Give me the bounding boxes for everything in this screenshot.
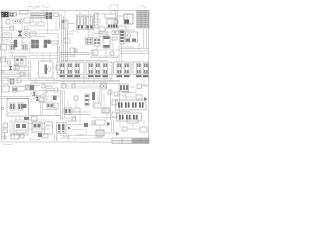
dark box B19: [53, 96, 57, 101]
wire: [0, 96, 30, 98]
wire: [45, 14, 54, 16]
control box B6: [15, 57, 27, 66]
dark box: [24, 117, 29, 120]
dark box B30: [38, 133, 42, 137]
box B48: [32, 117, 38, 122]
connector ladder C105: [95, 13, 99, 28]
box B16: [137, 84, 142, 89]
box B35: [140, 127, 147, 132]
fuse strip F1: [31, 13, 45, 18]
wire: [117, 15, 124, 17]
pump motor P1: [100, 83, 107, 89]
box B50: [72, 117, 76, 121]
connector C116: [86, 38, 93, 45]
box B29: [32, 122, 42, 132]
wire: [95, 13, 105, 15]
box B52: [39, 98, 44, 102]
pin strip: [85, 94, 89, 106]
box B53: [25, 26, 29, 30]
arrow: [68, 127, 71, 130]
wire: [59, 15, 61, 30]
wire: [138, 44, 140, 50]
box B26: [94, 103, 101, 108]
box B45: [114, 20, 118, 24]
wire: [8, 13, 31, 15]
gauge G1: [13, 19, 18, 24]
connector B2: [96, 64, 101, 74]
wire bus horizontal: [60, 52, 90, 54]
arrow: [144, 97, 148, 101]
ignition module U2: [103, 36, 110, 48]
relay R3: [3, 129, 8, 133]
wire: [96, 46, 98, 50]
relay block RB1: [124, 14, 133, 24]
label box: [51, 41, 58, 44]
box B8: [74, 49, 77, 52]
connector D2: [144, 64, 149, 74]
connector C118: [22, 45, 28, 50]
connector B1: [89, 64, 94, 74]
connector assembly B: [86, 62, 112, 75]
wire: [28, 123, 45, 125]
connector assembly A: [57, 62, 84, 75]
margin note: [3, 144, 12, 146]
connector block CB6: [119, 84, 129, 92]
resistor stack: [14, 40, 17, 47]
box B38: [20, 134, 24, 138]
connector unit A: [77, 15, 85, 30]
margin mark: [141, 6, 147, 8]
connector strip dashes: [60, 75, 149, 77]
wire: [30, 115, 60, 117]
wire: [60, 117, 76, 119]
box B1: [30, 22, 36, 26]
lamp X3: [33, 92, 36, 96]
gauge G2: [17, 19, 22, 24]
border frame: [2, 11, 149, 143]
switch S1: [62, 20, 68, 29]
label text: [10, 42, 15, 44]
wire: [21, 36, 23, 48]
dark box B31: [84, 123, 88, 127]
wire: [30, 80, 60, 82]
sensor box: [92, 50, 98, 55]
box B47: [70, 48, 75, 55]
box B36: [110, 52, 114, 55]
connector A3: [75, 64, 80, 74]
wire bus: [57, 80, 120, 82]
box B10: [112, 37, 117, 40]
margin stamp box: [110, 5, 118, 11]
box B12: [2, 78, 8, 84]
coil L1: [92, 92, 95, 100]
connector C102: [10, 13, 12, 15]
fuse box FB1: [107, 19, 117, 28]
connector C101: [2, 12, 5, 17]
wire: [0, 70, 30, 72]
wire: [79, 120, 81, 126]
junction box J3: [72, 84, 75, 88]
lamp X4: [36, 97, 39, 101]
box B43: [64, 38, 70, 43]
control unit U1: [24, 18, 30, 23]
wire: [9, 120, 11, 136]
wire: [61, 16, 63, 30]
box B2: [38, 22, 44, 26]
wire: [60, 138, 112, 140]
wire: [88, 30, 90, 38]
wire: [120, 48, 149, 50]
wire harness mesh: [0, 17, 144, 142]
wire: [110, 90, 112, 120]
crossing wires: [30, 92, 48, 100]
connector block CB8: [117, 113, 142, 121]
hatched box 2: [96, 130, 104, 136]
box B17: [2, 86, 9, 92]
connector C110: [10, 79, 14, 84]
connector C115: [57, 123, 67, 134]
box B44: [118, 26, 126, 31]
connector C113: [47, 103, 53, 108]
vertical bus: [60, 90, 62, 120]
connector pair C107: [44, 40, 47, 44]
junction box J2: [62, 84, 66, 88]
module M4: [14, 122, 28, 135]
box B37: [11, 134, 19, 139]
box B14: [56, 65, 60, 70]
lamp X1: [18, 31, 22, 36]
box B27: [112, 112, 117, 117]
connector C108: [94, 38, 100, 46]
box B51: [6, 20, 10, 25]
label text: [40, 10, 48, 12]
label plate: [20, 11, 28, 15]
connector C119: [13, 87, 18, 92]
wire: [0, 37, 30, 39]
box B5: [1, 44, 7, 50]
label box LB1: [99, 32, 108, 37]
label box: [127, 119, 138, 123]
hatched box: [102, 108, 109, 113]
legend table: [137, 11, 150, 29]
box B25: [112, 100, 117, 105]
connector assembly C: [114, 62, 132, 75]
box B32: [95, 120, 105, 125]
connector assembly D: [133, 62, 149, 75]
wire: [59, 14, 63, 16]
wire: [111, 120, 113, 132]
arrow: [116, 132, 120, 136]
gauge cluster arcs: [2, 32, 12, 42]
box B49: [54, 88, 58, 92]
junction block J1: [14, 13, 17, 17]
wire: [8, 55, 30, 57]
connector A1: [60, 64, 65, 74]
wire: [0, 27, 14, 29]
striped box: [14, 65, 19, 70]
box B13: [17, 78, 21, 83]
box edge: [1, 57, 6, 62]
wire: [118, 44, 120, 62]
box B11: [8, 61, 11, 64]
connector C117: [10, 45, 15, 50]
ground ring: [1, 70, 4, 73]
connector block CB7: [116, 100, 147, 110]
box B22: [74, 108, 80, 112]
box B24: [114, 92, 118, 96]
ground: [1, 107, 4, 110]
lamp X2: [9, 66, 12, 70]
box B18: [46, 86, 52, 91]
box B34: [122, 127, 127, 131]
box B20: [54, 103, 58, 108]
module M2: [39, 61, 54, 78]
box B3: [105, 14, 117, 18]
connector C120: [30, 85, 34, 90]
box B39: [42, 134, 48, 138]
wire: [40, 102, 42, 115]
text speckles group: [17, 31, 148, 138]
module region M1: [30, 34, 58, 54]
title block table: [112, 138, 149, 144]
connector C114: [64, 108, 72, 114]
box B23: [108, 90, 112, 94]
wire bus vertical: [61, 30, 63, 62]
module M3: [7, 99, 29, 117]
box B28: [136, 95, 142, 99]
wire: [28, 60, 30, 80]
connector B3: [103, 64, 108, 74]
module M5: [45, 122, 53, 134]
label text: [18, 86, 24, 88]
connector pair C106: [32, 40, 35, 44]
box B41: [10, 26, 14, 30]
corner box: [25, 85, 30, 90]
wire: [115, 11, 117, 24]
connector column C109: [120, 30, 124, 44]
connector pair C103: [46, 13, 48, 16]
box B42: [30, 32, 37, 36]
connector unit B: [86, 15, 94, 30]
wire: [54, 134, 56, 141]
connector A2: [68, 64, 73, 74]
horn H1: [24, 31, 28, 35]
box B33: [92, 121, 95, 124]
wire: [127, 128, 140, 130]
box B21: [74, 96, 78, 100]
connector C1: [117, 64, 122, 74]
wire: [8, 52, 30, 54]
ground G10: [4, 133, 6, 139]
arrow: [107, 122, 111, 126]
dashed wire: [57, 72, 59, 78]
connector D1: [137, 64, 142, 74]
margin annotation: [28, 6, 40, 8]
relay box RB2: [126, 32, 138, 42]
connector C2: [125, 64, 130, 74]
wire: [104, 132, 116, 134]
wire: [64, 114, 90, 116]
box B15: [42, 84, 45, 88]
relay R2: [3, 123, 8, 128]
box B46: [20, 72, 24, 76]
box B9: [112, 31, 115, 35]
relay R1: [54, 13, 59, 17]
box B4: [99, 27, 105, 31]
